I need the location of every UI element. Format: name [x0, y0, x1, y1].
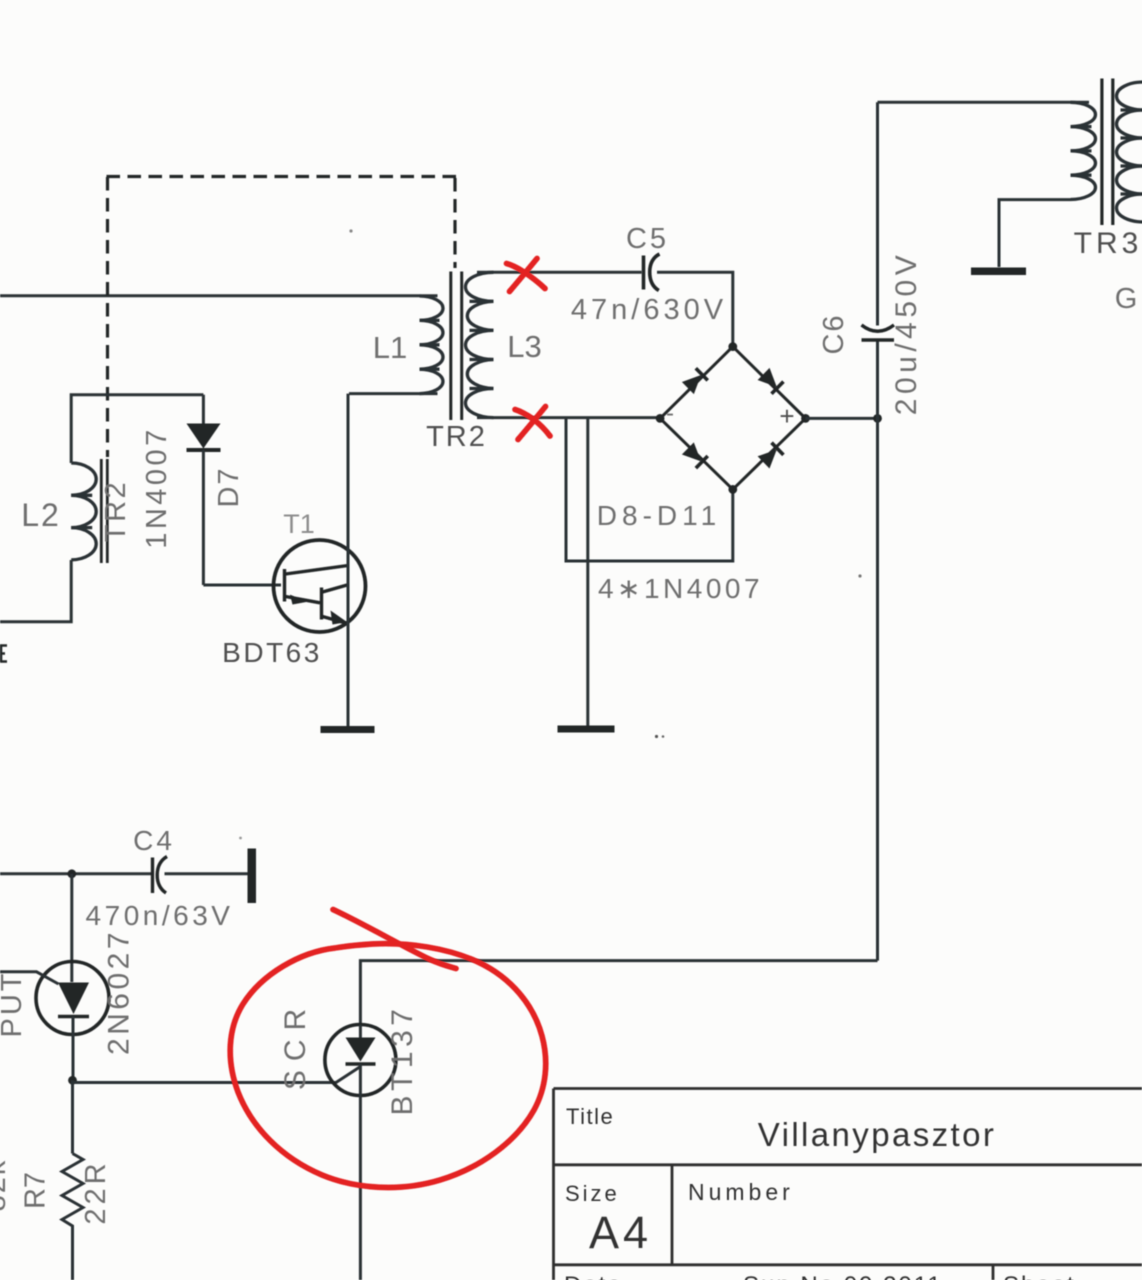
wire left edge to C4	[0, 872, 151, 875]
wire L2/D7 loop top	[71, 395, 203, 463]
wire HV rail (upper segment)	[876, 102, 879, 325]
ground (TR3 primary)	[971, 268, 1026, 276]
diode D9	[758, 368, 784, 394]
node PUT cathode / SCR gate junction	[68, 1076, 77, 1085]
wire L3 bottom to bridge minus corner	[477, 416, 660, 419]
svg-text:A4: A4	[589, 1207, 652, 1258]
inductor TR3 primary winding	[1071, 102, 1096, 199]
svg-text:4∗1N4007: 4∗1N4007	[598, 573, 763, 604]
svg-text:470n/63V: 470n/63V	[86, 900, 234, 931]
inductor TR3 secondary winding (fence output)	[1117, 82, 1142, 222]
wire L2 bottom to left edge	[0, 560, 71, 622]
wire D7 to T1 base	[203, 584, 281, 587]
diode D10	[682, 442, 708, 468]
svg-text:TR2: TR2	[100, 480, 132, 542]
node bridge plus	[801, 414, 810, 423]
ground (T1 emitter)	[321, 726, 375, 733]
capacitor C4	[151, 858, 154, 894]
wire TR3 primary bottom to ground	[999, 200, 1071, 267]
inductor L1 (TR2 primary winding)	[420, 296, 444, 394]
capacitor C5	[642, 256, 646, 290]
svg-text:Villanypasztor: Villanypasztor	[758, 1116, 996, 1153]
svg-text:+: +	[779, 401, 794, 431]
dashed coupling box around TR2	[107, 177, 457, 458]
svg-text:Size: Size	[565, 1181, 620, 1206]
svg-text:TR3: TR3	[1074, 227, 1142, 260]
transformer core (L2 side of TR2)	[100, 459, 103, 563]
svg-text:C5: C5	[626, 223, 669, 255]
svg-text:L2: L2	[21, 497, 61, 533]
wire L1 bottom to T1 collector rail	[349, 392, 438, 395]
diode D11	[758, 443, 784, 469]
svg-text:T1: T1	[283, 509, 315, 539]
svg-text:BT137: BT137	[386, 1005, 419, 1116]
diode bridge D8-D11 diamond	[660, 347, 805, 490]
svg-text:Number: Number	[688, 1179, 794, 1205]
wire bridge plus to HV rail	[806, 417, 878, 420]
thyristor SCR BT137	[325, 1025, 396, 1096]
svg-text:C4: C4	[133, 825, 175, 856]
svg-text:SCR: SCR	[279, 1000, 312, 1090]
transistor T1 BDT63 (darlington)	[274, 540, 366, 632]
wire bridge minus to ground	[586, 418, 589, 726]
diode D7	[202, 395, 205, 424]
svg-text:82k: 82k	[0, 1159, 12, 1212]
wire mains input to L1	[0, 294, 438, 297]
svg-text:L1: L1	[373, 330, 407, 365]
transformer TR2 core	[449, 272, 452, 421]
terminal bar (C4 right electrode)	[248, 849, 257, 904]
svg-text:Title: Title	[566, 1104, 614, 1129]
svg-text:1N4007: 1N4007	[141, 426, 173, 549]
wire PUT cathode to SCR gate	[73, 1067, 361, 1083]
resistor R7 22R	[71, 1080, 74, 1153]
ground (bridge minus)	[558, 726, 615, 733]
svg-text:Sun No 09 2011: Sun No 09 2011	[743, 1272, 943, 1280]
scan specks	[655, 735, 658, 738]
node bridge AC bottom	[728, 485, 737, 494]
wire HV rail to SCR anode	[360, 961, 877, 1025]
svg-text:L3: L3	[507, 329, 541, 364]
svg-text:C6: C6	[818, 313, 850, 354]
wire HV rail (lower segment)	[876, 339, 879, 961]
capacitor C6	[862, 325, 895, 331]
inductor L2 (TR2 feedback winding)	[71, 463, 96, 560]
node bridge minus	[656, 414, 665, 423]
svg-text:R7: R7	[20, 1172, 52, 1209]
wire SCR cathode down to bottom edge	[359, 1064, 362, 1280]
node C4 / PUT anode junction	[67, 869, 76, 878]
svg-text:47n/630V: 47n/630V	[571, 294, 727, 326]
svg-text:-: -	[666, 400, 674, 427]
node HV rail junction	[873, 414, 882, 423]
svg-text:Sheet: Sheet	[1003, 1272, 1076, 1280]
svg-text:2N6027: 2N6027	[103, 929, 136, 1055]
svg-text:D8-D11: D8-D11	[597, 500, 721, 531]
inductor L3 (TR2 HV secondary winding)	[465, 272, 493, 417]
title block frame	[554, 1089, 1142, 1280]
wire L3 top to C5	[477, 271, 642, 274]
svg-text:PUT: PUT	[0, 971, 28, 1038]
red tail stroke	[333, 910, 456, 969]
node bridge AC top	[728, 342, 737, 351]
svg-text:22R: 22R	[80, 1159, 112, 1224]
transistor PUT 2N6027	[70, 874, 73, 982]
wire HV rail top to TR3 primary	[878, 101, 1090, 104]
wire T1 collector/emitter rail	[347, 394, 350, 726]
red X mark on L3 top lead	[510, 259, 538, 292]
wire L3-bottom branch to bridge AC bottom corner	[566, 418, 733, 561]
svg-text:20u/450V: 20u/450V	[890, 251, 923, 415]
svg-text:D7: D7	[213, 466, 245, 507]
diode D8	[682, 368, 708, 394]
red circle annotation around SCR	[230, 944, 546, 1188]
svg-text:Date: Date	[564, 1272, 623, 1280]
svg-text:TR2: TR2	[426, 421, 487, 453]
wire C4 to terminal bar	[165, 872, 248, 875]
wire C5 to bridge AC top corner	[657, 272, 733, 343]
transformer TR3 core	[1100, 79, 1103, 226]
red X mark on L3 bottom lead	[518, 407, 546, 440]
svg-text:G: G	[1115, 283, 1138, 315]
svg-text:BDT63: BDT63	[222, 637, 322, 668]
partial label at left edge	[0, 645, 7, 663]
